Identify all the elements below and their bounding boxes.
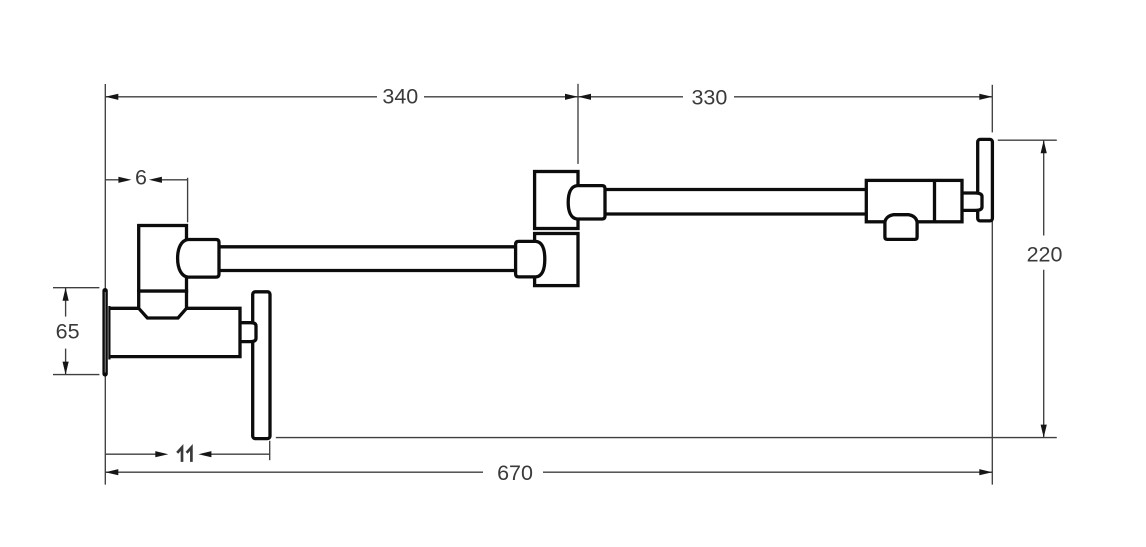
spout outlet: [885, 215, 917, 240]
right valve stem: [962, 193, 982, 210]
extension line right lower (x=992): [991, 221, 993, 485]
lower arm tube bottom line: [219, 269, 516, 272]
extension line middle (x=578): [577, 84, 579, 164]
upper arm tube bottom line: [605, 212, 866, 215]
extension line left (x=105): [104, 84, 106, 485]
extension line right upper (x=992): [991, 85, 993, 133]
dimension line 220: [1043, 140, 1045, 235]
extension line 220 top: [998, 139, 1057, 141]
middle joint upper block: [535, 172, 578, 229]
extension line for 6 (x=187.6): [187, 178, 189, 223]
right valve handle bar: [978, 139, 993, 221]
middle upper connector nut: [568, 186, 605, 219]
svg-text:670: 670: [497, 461, 533, 485]
wall collar: [108, 306, 110, 360]
arrow 6 left (points right): [118, 177, 131, 183]
dimension line 330: [578, 96, 683, 98]
arrow 330 right: [979, 94, 992, 100]
right body divider line: [933, 180, 936, 221]
dimension line 6: [105, 179, 120, 181]
middle joint lower block: [535, 234, 578, 286]
dimension line 670: [105, 471, 483, 473]
arrow 220 bottom (points down): [1041, 425, 1047, 438]
svg-text:220: 220: [1027, 243, 1063, 267]
arrow 65 top (points up): [63, 288, 69, 301]
left elbow block: [139, 226, 187, 292]
svg-text:65: 65: [56, 319, 80, 343]
svg-text:6: 6: [135, 166, 147, 190]
middle lower connector nut: [516, 241, 545, 277]
dimension line 11: [105, 453, 157, 455]
arrow 11 right (points left): [198, 451, 211, 457]
extension line 65 top: [53, 287, 99, 289]
neck pipe with taper nut: [139, 291, 187, 318]
dimension line 65: [65, 288, 67, 317]
arrow 670 right: [979, 469, 992, 475]
upper arm tube top line: [605, 188, 866, 191]
left valve stem: [240, 323, 256, 342]
lower arm tube top line: [219, 245, 516, 248]
extension line 65 bottom: [53, 374, 99, 376]
arrow 6 right (points left): [149, 177, 162, 183]
wall flange plate: [102, 288, 107, 377]
arrow 11 left (points right): [155, 451, 168, 457]
svg-text:340: 340: [382, 84, 418, 108]
arrow 670 left: [105, 469, 118, 475]
left elbow connector nut: [178, 240, 219, 278]
right valve body: [866, 180, 962, 221]
left body cylinder: [109, 308, 240, 356]
left valve handle bar: [253, 292, 270, 439]
dimension line 340: [105, 96, 377, 98]
arrow 340 left: [105, 94, 118, 100]
arrow 330 left: [578, 94, 591, 100]
label 11 (custom footless ones): [177, 448, 182, 462]
arrow 340 right: [565, 94, 578, 100]
svg-text:330: 330: [691, 86, 727, 110]
baseline bottom reference: [276, 437, 1057, 439]
arrow 220 top (points up): [1041, 140, 1047, 153]
arrow 65 bottom (points down): [63, 362, 69, 375]
extension line for 11 (x=269.7): [269, 441, 271, 460]
